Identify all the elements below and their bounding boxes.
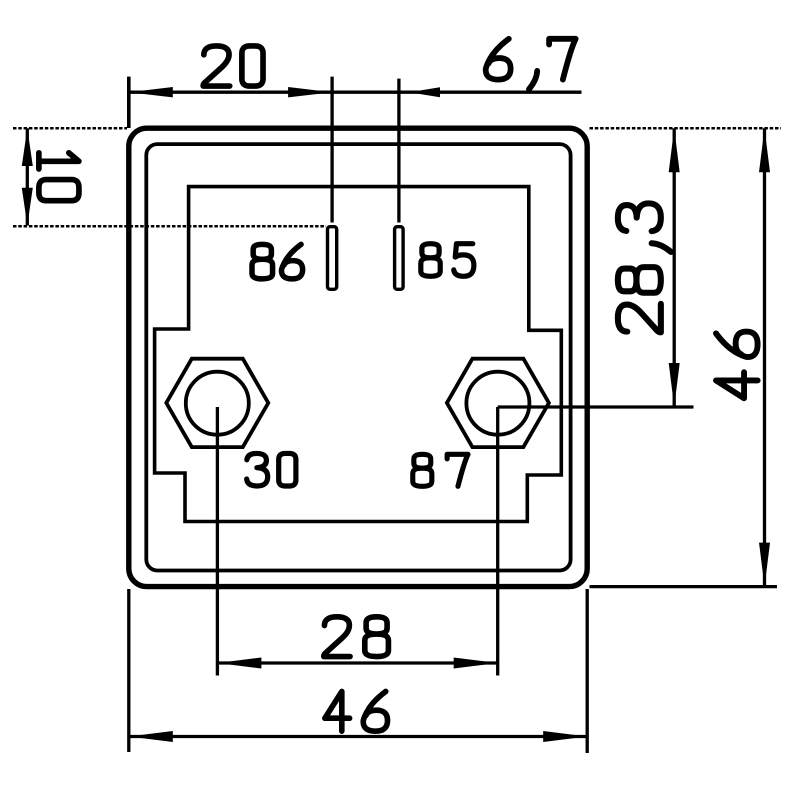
extension line case left above [127,77,131,128]
extension line pin 85 vertical [397,79,400,223]
dimension 28,3 line [673,128,676,407]
terminal 30 circle [186,372,249,435]
dimension 46 right text rotated [716,332,758,399]
extension line pin 86 vertical [330,77,333,223]
label pin 85 [421,244,474,277]
dimension 28 right arrow [454,658,498,669]
relay base stepped profile [155,187,562,522]
relay case inner outline [146,144,570,570]
leader line terminal 87 centre right [498,405,694,408]
terminal 87 hex [447,359,549,447]
extension line case bottom-right down [586,589,589,753]
dimension 46 right top arrow [759,128,770,172]
dimension 28 text [324,617,389,657]
extension line case top towards right [590,127,782,130]
dimension 10 top arrow [22,128,33,166]
terminal 87 circle [466,372,529,435]
extension line case bottom-left down [127,589,130,752]
terminal 30 hex [166,359,268,447]
label pin 87 [413,454,468,486]
dimension 10 text rotated [39,153,79,201]
dimension 28 left arrow [217,658,261,669]
dimension 20 line [129,91,400,94]
dimension 46 right line [763,128,766,586]
dimension 28,3 top arrow [669,128,680,172]
dimension 20 right arrow [288,87,332,97]
dimension 46 right bottom arrow [759,543,770,587]
dimension 28,3 text rotated [618,203,671,332]
label pin 30 [247,453,296,486]
dimension 46 bottom left arrow [129,731,173,742]
dimension 10 line [26,128,29,225]
pin 86 blade [328,227,337,290]
dimension 28 bottom line [217,661,497,664]
dimension 46 bottom text [325,691,388,731]
extension line case bottom towards right [590,585,778,588]
dimension 46 bottom line [129,735,587,738]
dimension 10 bottom arrow [22,188,33,226]
dimension 20 text [203,46,263,86]
dimension 6,7 line [400,91,581,94]
dimension 20 left arrow [129,87,173,97]
dimension 6,7 arrow [409,87,440,97]
dimension 6,7 text [486,39,576,89]
pin 85 blade [395,227,404,290]
extension line blade top level [13,225,326,228]
relay outer case outline [129,128,587,586]
label pin 86 [252,244,303,279]
extension line terminal 30 centre down [216,407,219,676]
dimension 46 bottom right arrow [543,731,587,742]
extension line case top towards left [13,127,127,130]
extension line terminal 87 centre down [496,407,499,676]
dimension 28,3 bottom arrow [669,363,680,407]
